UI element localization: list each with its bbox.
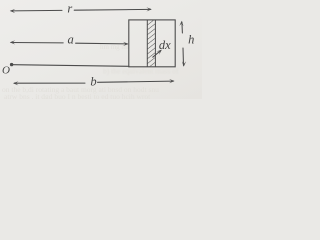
- arrowhead r right: [146, 7, 151, 11]
- arrowhead a left: [10, 40, 15, 44]
- arrowhead h top: [179, 21, 183, 27]
- arrowhead b right: [169, 79, 174, 83]
- rod rectangle: [129, 20, 175, 67]
- h dimension vertical line top segment: [181, 22, 184, 33]
- arrowhead h bottom: [182, 61, 186, 66]
- svg-text:atrw bns . it dgd buo I n bes: atrw bns . it dgd buo I n besti to ed tu…: [4, 92, 151, 99]
- dimension arrow r : line right segment: [74, 8, 150, 11]
- svg-text:b) the equivalent mass of: b) the equivalent mass of: [103, 67, 179, 76]
- dimension arrow r : line left segment: [11, 9, 62, 12]
- svg-text:r: r: [67, 2, 72, 16]
- dimension arrow a : line right segment: [76, 42, 128, 45]
- svg-text:dx: dx: [159, 38, 171, 52]
- axis line from node O to rod: [13, 65, 129, 67]
- dimension arrow b : line left segment: [14, 82, 85, 84]
- strip dx left edge: [146, 20, 148, 67]
- h dimension vertical line bottom segment: [182, 48, 185, 65]
- svg-text:h: h: [188, 33, 194, 47]
- svg-text:a: a: [68, 33, 74, 47]
- arrowhead b left: [13, 81, 18, 85]
- arrowhead a right: [123, 42, 128, 46]
- leader arrow shaft for dx: [153, 51, 161, 58]
- dimension arrow b : line right segment: [98, 81, 174, 82]
- arrowhead dx leader: [156, 50, 162, 55]
- ghost bleed-through text line (b) the equivalent: [103, 67, 179, 76]
- strip dx right edge: [154, 20, 156, 67]
- node O dot: [10, 63, 13, 66]
- dimension arrow a : line left segment: [11, 42, 63, 44]
- svg-text:b: b: [90, 75, 96, 89]
- arrowhead r left: [10, 9, 15, 13]
- strip dx hatched fill: [147, 20, 155, 66]
- svg-text:O: O: [2, 64, 10, 76]
